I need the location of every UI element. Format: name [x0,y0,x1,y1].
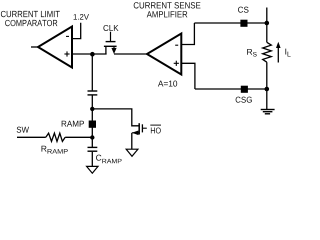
capacitor internal hold cap [88,91,98,95]
wire RAMP column vertical lower [91,96,93,148]
label CRAMP [96,155,122,164]
pin CS terminal square [240,20,247,27]
op-amp U2 current sense amplifier [147,34,181,75]
wire RRAMP to RAMP node [65,136,92,138]
label A=10 [158,81,177,87]
label SW [17,127,29,133]
node junction to MOSFET drain branch [90,107,94,111]
label CURRENT SENSE AMPLIFIER [134,2,201,17]
op-amp U1 current limit comparator [38,27,72,68]
wire 1.2V reference to comparator inverting input [72,23,81,39]
label CLK [103,25,118,31]
wire comparator non-inverting input to CLK switch [72,53,107,55]
pin RAMP terminal square [89,121,96,128]
node junction CS rail [265,21,270,26]
capacitor CRAMP [88,147,98,151]
current arrow IL [276,42,281,63]
wire CLK switch to current sense amplifier output [114,53,148,55]
wire CSA non-inverting input to CSG [181,63,195,89]
resistor RS [263,42,272,62]
label HO gate signal with overline [150,125,161,133]
wire CSG rail horizontal [195,88,267,90]
wire CS junction down to RS [266,23,268,42]
pin CSG terminal square [241,86,248,93]
wire comparator output stub [31,46,39,48]
wire CSA inverting input to CS [181,23,194,45]
label CSG [236,97,252,103]
wire CS rail horizontal [194,22,266,24]
wire CS stub above [266,8,268,24]
ground earth symbol [261,110,275,114]
wire CSG junction to earth ground [266,89,268,110]
transistor Q1 HO MOSFET [132,123,147,135]
wire SW to RRAMP [17,136,46,138]
label 1.2V [74,14,89,20]
wire MOSFET source to ground [131,133,133,149]
wire node to MOSFET drain [92,109,139,126]
wire RS to CSG junction [266,62,268,89]
label RAMP [62,121,84,127]
label CS [238,7,249,13]
node junction at RAMP column and comparator input [90,52,95,57]
node junction CSG rail [265,87,270,92]
label IL [285,49,290,57]
label RS [247,49,256,57]
wire RAMP column vertical upper [91,54,93,90]
label CURRENT LIMIT COMPARATOR [1,11,60,26]
ground chassis triangle below MOSFET [126,149,138,156]
switch CLK sampling transistor [104,32,117,54]
resistor RRAMP [46,133,65,141]
node junction RAMP / RRAMP / CRAMP [90,135,94,139]
wire CRAMP to ground [91,152,93,167]
ground chassis triangle below CRAMP [87,166,98,173]
label RRAMP [42,146,68,154]
